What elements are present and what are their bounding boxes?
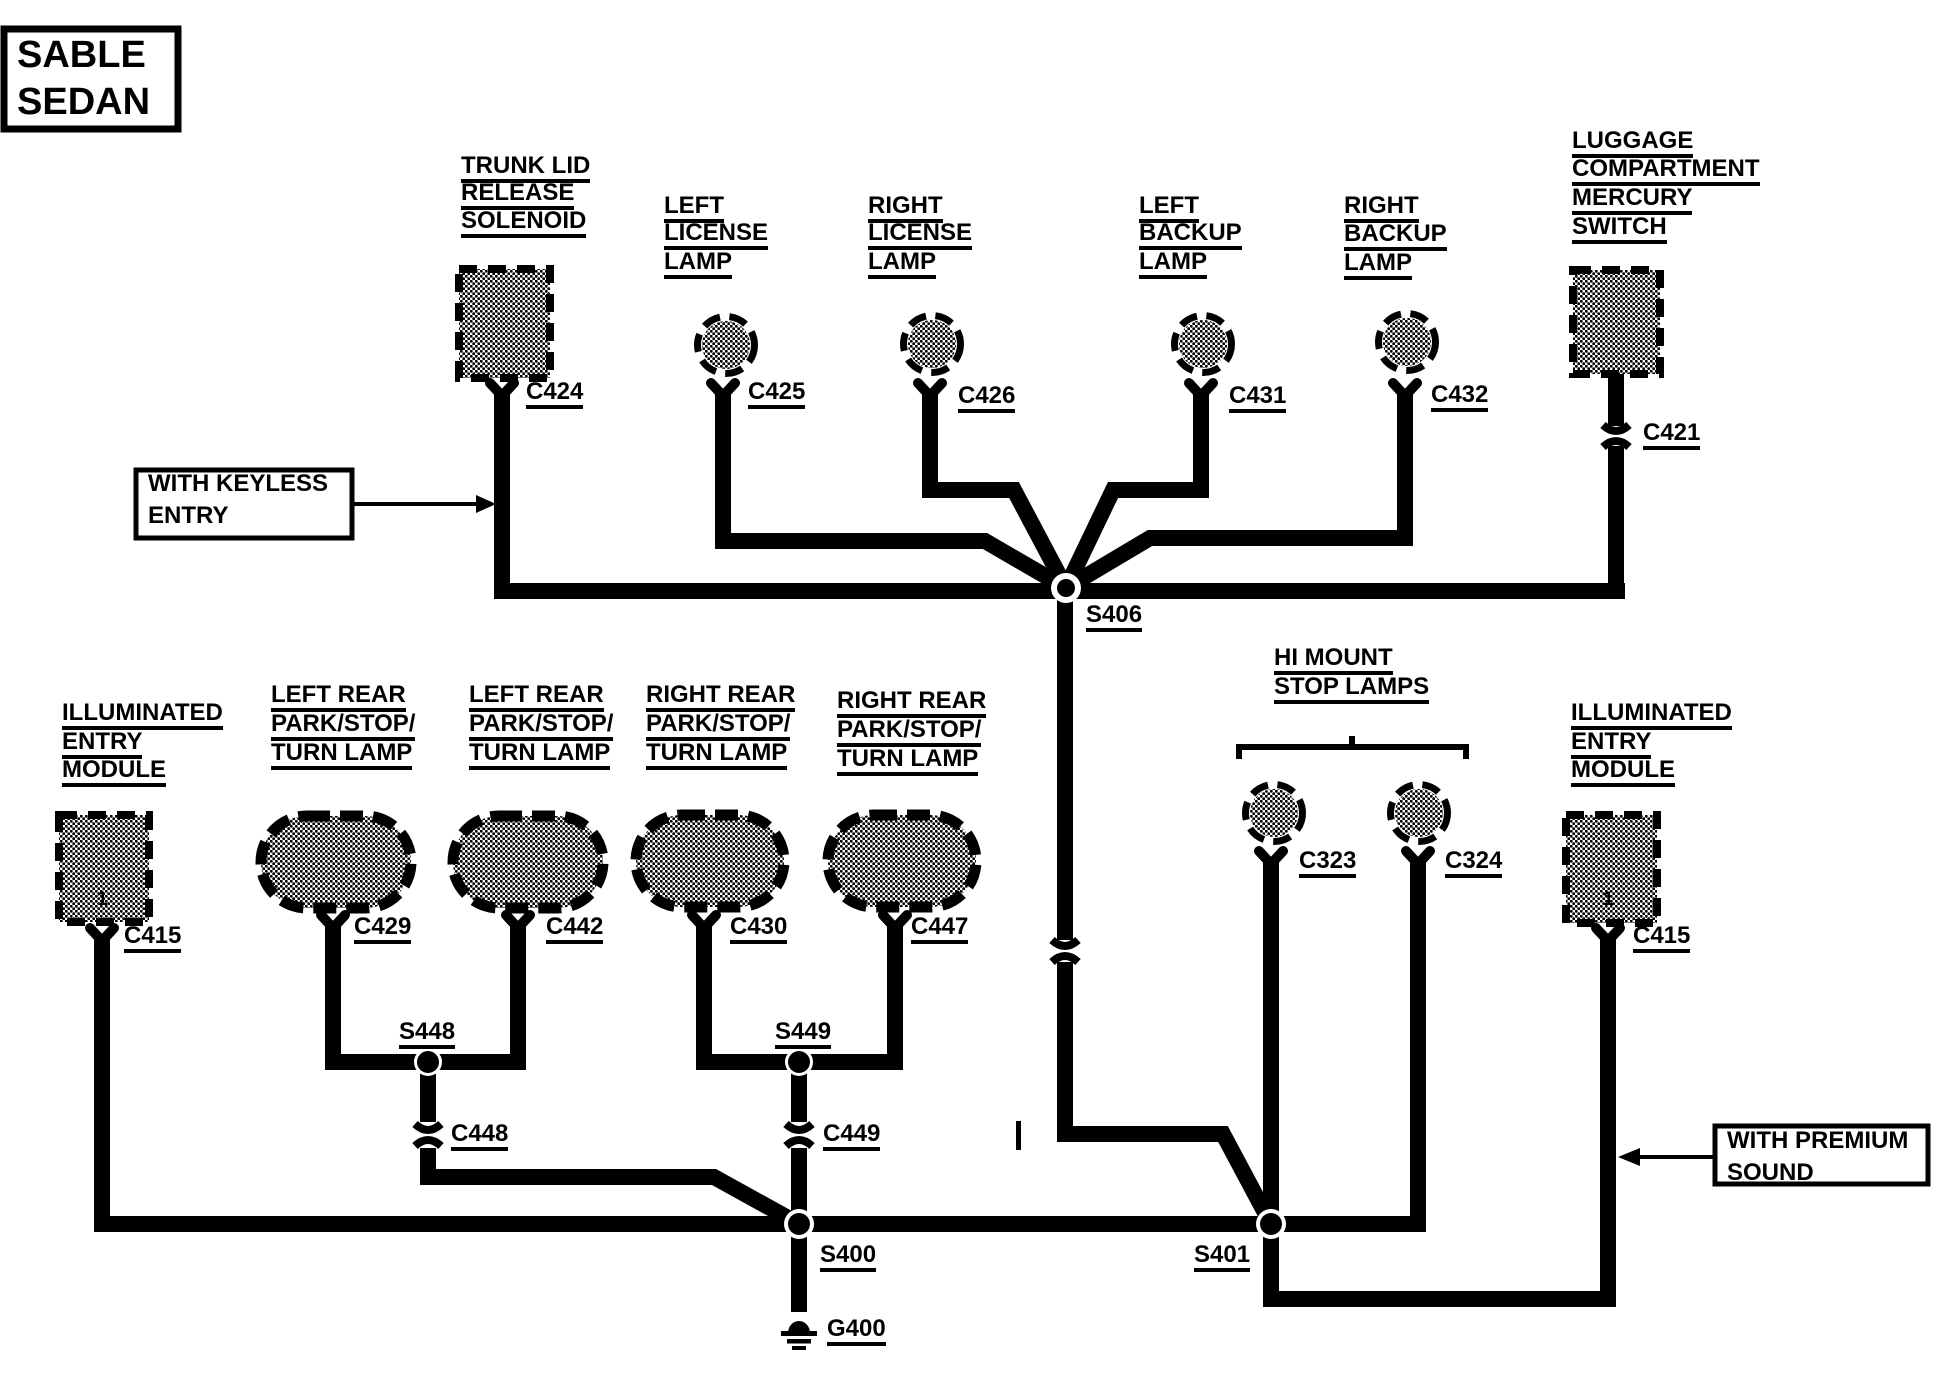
- text label SOLENOID: [461, 208, 586, 238]
- wire: [1263, 858, 1279, 1224]
- wire: [791, 1224, 807, 1312]
- component box: [459, 269, 550, 378]
- text label MODULE: [62, 757, 166, 787]
- connector fork: [1259, 851, 1283, 864]
- connector fork: [1596, 928, 1620, 941]
- connector fork: [1406, 851, 1430, 864]
- text label C425: [748, 379, 805, 409]
- text label RELEASE: [461, 180, 574, 210]
- connector fork: [506, 915, 530, 928]
- text label ENTRY: [1571, 729, 1651, 759]
- with keyless entry box: [136, 470, 352, 538]
- text label ENTRY: [62, 729, 142, 759]
- wire: [791, 1062, 807, 1122]
- text label WITH PREMIUM: [1727, 1128, 1908, 1154]
- text label RIGHT: [868, 193, 943, 223]
- pin 1 left module: [97, 890, 108, 909]
- wire: [510, 922, 526, 1062]
- lamp circle: [1383, 318, 1431, 366]
- text label PARK/STOP/: [646, 711, 790, 741]
- component box: [1573, 270, 1660, 374]
- wire: [1271, 938, 1608, 1299]
- text label ILLUMINATED: [1571, 700, 1732, 730]
- text label LAMP: [1344, 250, 1412, 280]
- lamp oval: [453, 816, 603, 908]
- lamp oval: [636, 815, 784, 907]
- text label PARK/STOP/: [837, 717, 981, 747]
- connector fork: [90, 928, 114, 941]
- pin 1 right module: [1603, 890, 1614, 909]
- connector fork: [711, 383, 735, 396]
- text label S400: [820, 1242, 876, 1272]
- lamp oval: [261, 816, 411, 908]
- wire: [930, 390, 1066, 588]
- inline connector: [1603, 425, 1629, 431]
- text label S406: [1086, 602, 1142, 632]
- text label COMPARTMENT: [1572, 156, 1760, 186]
- text label C432: [1431, 382, 1488, 412]
- connector fork: [490, 383, 514, 396]
- wire: [723, 390, 1066, 588]
- text label C431: [1229, 383, 1286, 413]
- splice junction: [414, 1048, 442, 1076]
- text label LAMP: [1139, 249, 1207, 279]
- text label TURN LAMP: [469, 740, 610, 770]
- text label S448: [399, 1019, 455, 1049]
- text label LEFT REAR: [469, 682, 604, 712]
- inline connector: [415, 1124, 441, 1130]
- text label LAMP: [868, 249, 936, 279]
- text label C424: [526, 379, 583, 409]
- wire: [1066, 390, 1405, 588]
- SABLE SEDAN title: [17, 32, 150, 126]
- text label MODULE: [1571, 757, 1675, 787]
- splice junction: [785, 1048, 813, 1076]
- text label RIGHT REAR: [837, 688, 986, 718]
- wire: [94, 1216, 1426, 1232]
- text label RIGHT: [1344, 193, 1419, 223]
- inline connector: [786, 1124, 812, 1130]
- wire: [887, 922, 903, 1062]
- lamp circle: [1250, 789, 1298, 837]
- text label LEFT REAR: [271, 682, 406, 712]
- premium sound pointer arrow: [1638, 1155, 1713, 1159]
- lamp circle: [1395, 789, 1443, 837]
- text label SWITCH: [1572, 214, 1667, 244]
- text label C415: [124, 923, 181, 953]
- text label C415: [1633, 923, 1690, 953]
- text label C421: [1643, 420, 1700, 450]
- text label LUGGAGE: [1572, 128, 1693, 158]
- text label LAMP: [664, 249, 732, 279]
- text label LEFT: [1139, 193, 1199, 223]
- wire: [94, 938, 110, 1224]
- SABLE SEDAN title box: [4, 29, 178, 129]
- connector fork: [883, 915, 907, 928]
- component box: [1566, 815, 1657, 923]
- connector fork: [918, 383, 942, 396]
- wire: [696, 922, 712, 1062]
- text label G400: [827, 1316, 886, 1346]
- text label HI MOUNT: [1274, 645, 1393, 675]
- text label C448: [451, 1121, 508, 1151]
- splice junction: [1256, 1209, 1286, 1239]
- text label S401: [1194, 1242, 1250, 1272]
- text label TURN LAMP: [271, 740, 412, 770]
- text label TURN LAMP: [837, 746, 978, 776]
- stray mark: [1016, 1121, 1021, 1150]
- text label C442: [546, 914, 603, 944]
- connector fork: [321, 915, 345, 928]
- with premium sound box: [1715, 1126, 1928, 1184]
- wire: [1608, 446, 1624, 599]
- wire: [1608, 372, 1624, 426]
- text label C447: [911, 914, 968, 944]
- text label TRUNK LID: [461, 153, 590, 183]
- text label RIGHT REAR: [646, 682, 795, 712]
- splice junction: [1051, 573, 1081, 603]
- wire: [1410, 858, 1426, 1224]
- wire: [1057, 588, 1073, 940]
- connector fork: [1189, 383, 1213, 396]
- wire: [791, 1148, 807, 1224]
- text label WITH KEYLESS: [148, 471, 328, 497]
- text label BACKUP: [1139, 220, 1242, 250]
- wire: [502, 392, 1625, 591]
- connector fork: [692, 915, 716, 928]
- text label C426: [958, 383, 1015, 413]
- hi mount stop lamps bracket: [1239, 747, 1466, 759]
- wire: [420, 1062, 436, 1122]
- keyless entry pointer arrow: [354, 502, 478, 506]
- text label C324: [1445, 848, 1502, 878]
- wire: [428, 1148, 799, 1224]
- component box: [59, 815, 149, 922]
- text label C323: [1299, 848, 1356, 878]
- text label C430: [730, 914, 787, 944]
- wire: [325, 1054, 526, 1070]
- wire: [1066, 390, 1201, 588]
- text label LICENSE: [664, 220, 768, 250]
- wire: [325, 922, 341, 1062]
- text label C449: [823, 1121, 880, 1151]
- text label ILLUMINATED: [62, 700, 223, 730]
- text label ENTRY: [148, 503, 228, 529]
- wire: [1065, 962, 1271, 1224]
- text label TURN LAMP: [646, 740, 787, 770]
- text label LICENSE: [868, 220, 972, 250]
- text label LEFT: [664, 193, 724, 223]
- lamp circle: [908, 320, 956, 368]
- lamp circle: [702, 321, 750, 369]
- wire: [696, 1054, 903, 1070]
- text label BACKUP: [1344, 221, 1447, 251]
- text label SOUND: [1727, 1160, 1814, 1186]
- text label MERCURY: [1572, 185, 1692, 215]
- text label PARK/STOP/: [271, 711, 415, 741]
- inline connector: [1052, 940, 1078, 946]
- text label PARK/STOP/: [469, 711, 613, 741]
- lamp oval: [828, 815, 976, 907]
- lamp circle: [1179, 320, 1227, 368]
- ground G400: [788, 1321, 810, 1333]
- text label C429: [354, 914, 411, 944]
- text label S449: [775, 1019, 831, 1049]
- connector fork: [1393, 383, 1417, 396]
- text label STOP LAMPS: [1274, 674, 1429, 704]
- splice junction: [784, 1209, 814, 1239]
